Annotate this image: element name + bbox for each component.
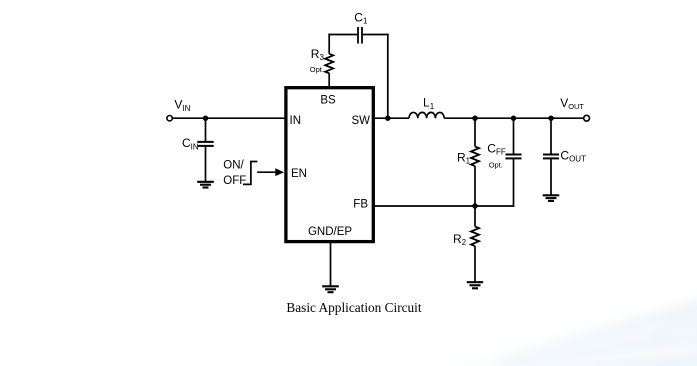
wire FB node down to R2: [474, 206, 476, 227]
wire R3 to top loop: [328, 34, 330, 54]
capacitor COUT: [543, 155, 559, 159]
label R2: [453, 232, 467, 247]
svg-text:VOUT: VOUT: [560, 96, 584, 111]
label Opt. for R3: [310, 65, 324, 74]
svg-text:Opt.: Opt.: [310, 65, 324, 74]
svg-text:R2: R2: [453, 232, 467, 247]
capacitor CIN: [197, 142, 213, 146]
wire top loop left to C1: [328, 34, 358, 36]
svg-text:C1: C1: [354, 11, 368, 26]
wire R2 to ground: [474, 246, 476, 282]
svg-text:EN: EN: [291, 168, 307, 180]
pin label SW: [351, 115, 370, 127]
resistor R2: [471, 227, 479, 247]
label COUT: [560, 149, 586, 164]
signal-edge symbol at EN: [243, 162, 257, 185]
node junction at SW: [385, 116, 390, 121]
svg-text:VIN: VIN: [174, 98, 190, 113]
svg-text:CFF: CFF: [487, 141, 506, 156]
svg-text:CIN: CIN: [182, 136, 199, 151]
ground below CIN: [197, 182, 214, 188]
resistor R1: [471, 147, 479, 167]
wire COUT to ground: [550, 158, 552, 195]
label Opt. for CFF: [489, 161, 503, 170]
node junction at R1: [472, 116, 477, 121]
label VIN: [174, 98, 190, 113]
decorative corner swoosh: [445, 296, 697, 366]
wire SW pin to L1: [374, 117, 409, 119]
label CIN: [182, 136, 199, 151]
svg-text:R3: R3: [311, 47, 325, 62]
wire VIN to IN pin: [172, 117, 285, 119]
wire output node down to COUT: [550, 118, 552, 154]
label VOUT: [560, 96, 584, 111]
svg-text:Basic Application Circuit: Basic Application Circuit: [286, 300, 421, 315]
pin label FB: [353, 198, 368, 210]
ground below COUT: [543, 195, 560, 201]
svg-text:FB: FB: [353, 198, 368, 210]
pin label EN: [291, 168, 307, 180]
wire down from loop to SW node: [387, 34, 389, 119]
wire BS pin up to R3: [328, 73, 330, 87]
svg-text:SW: SW: [351, 115, 370, 127]
ground below R2: [467, 282, 483, 288]
svg-text:ON/: ON/: [223, 160, 244, 172]
wire output node down to CFF: [513, 118, 515, 154]
capacitor C1: [358, 27, 362, 44]
svg-text:BS: BS: [320, 94, 336, 106]
svg-text:Opt.: Opt.: [489, 161, 503, 170]
wire input node down to CIN: [205, 118, 207, 142]
terminal VIN: [167, 116, 172, 121]
wire GND/EP pin to ground: [330, 242, 332, 286]
node junction at FB divider: [472, 203, 477, 208]
svg-text:COUT: COUT: [560, 149, 586, 164]
svg-text:IN: IN: [290, 115, 302, 127]
node junction at COUT: [548, 116, 553, 121]
node junction at CIN: [203, 116, 208, 121]
caption Basic Application Circuit: [286, 300, 421, 315]
svg-text:R1: R1: [457, 150, 471, 165]
wire R1 to FB line: [474, 166, 476, 206]
label ON/OFF: [223, 160, 246, 188]
pin label IN: [290, 115, 302, 127]
wire L1 to VOUT: [444, 117, 584, 119]
inductor L1: [409, 112, 444, 118]
wire FB pin to divider: [374, 205, 514, 207]
svg-text:OFF: OFF: [223, 175, 246, 187]
resistor R3: [325, 54, 333, 74]
terminal VOUT: [584, 115, 590, 121]
capacitor CFF: [506, 155, 522, 159]
label R3: [311, 47, 325, 62]
label CFF: [487, 141, 506, 156]
svg-text:L1: L1: [423, 96, 435, 111]
wire CIN to ground: [205, 146, 207, 182]
pin label GND/EP: [308, 226, 352, 238]
label C1: [354, 11, 368, 26]
label L1: [423, 96, 435, 111]
ground below GND/EP: [322, 286, 339, 292]
wire C1 to right drop: [362, 34, 389, 36]
wire output node down to R1: [474, 118, 476, 146]
pin label BS: [320, 94, 336, 106]
label R1: [457, 150, 471, 165]
svg-text:GND/EP: GND/EP: [308, 226, 352, 238]
node junction at CFF: [511, 116, 516, 121]
IC U1 body: [286, 88, 373, 242]
arrow into EN pin: [257, 168, 284, 176]
wire CFF down to FB line: [513, 158, 515, 206]
